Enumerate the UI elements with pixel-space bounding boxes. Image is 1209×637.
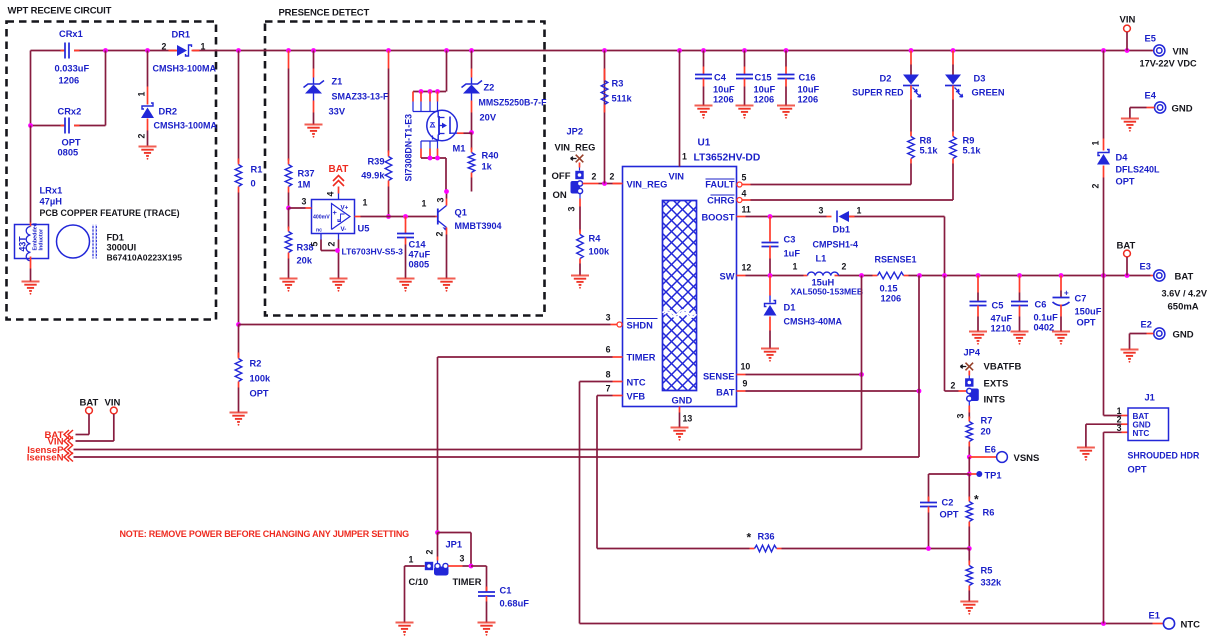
net label IsenseN — [27, 452, 73, 463]
svg-text:6: 6 — [606, 345, 611, 355]
svg-text:3: 3 — [567, 207, 577, 212]
svg-text:C16: C16 — [799, 73, 816, 83]
svg-text:17V-22V VDC: 17V-22V VDC — [1140, 59, 1198, 69]
svg-text:D3: D3 — [974, 74, 986, 84]
svg-text:R6: R6 — [983, 508, 995, 518]
ground below D1 — [761, 349, 779, 358]
jumper JP4 — [951, 348, 1022, 419]
svg-text:47uF: 47uF — [991, 314, 1013, 324]
test point BAT right — [1117, 241, 1136, 276]
svg-text:IsenseN: IsenseN — [27, 452, 64, 463]
svg-text:MMBT3904: MMBT3904 — [455, 221, 502, 231]
diode Db1 CMPSH1-4 — [813, 206, 862, 250]
svg-text:RSENSE1: RSENSE1 — [875, 255, 917, 265]
capacitor C1 — [471, 566, 529, 623]
net label IsenseP — [27, 445, 73, 456]
svg-text:1206: 1206 — [754, 95, 775, 105]
ferrite disc FD1 — [57, 225, 183, 263]
svg-text:C1: C1 — [500, 586, 512, 596]
svg-text:JP4: JP4 — [964, 348, 981, 358]
svg-text:SHDN: SHDN — [627, 321, 654, 331]
svg-text:VIN_REG: VIN_REG — [627, 180, 668, 190]
svg-text:11: 11 — [742, 205, 751, 215]
svg-text:Inductor: Inductor — [39, 228, 45, 250]
svg-text:R4: R4 — [589, 234, 602, 244]
svg-text:100k: 100k — [589, 247, 611, 257]
ground below JP1 pin1 — [396, 623, 414, 632]
svg-text:DR1: DR1 — [172, 30, 191, 40]
wire IsenseP horizontal — [74, 449, 862, 451]
svg-text:OPT: OPT — [250, 389, 269, 399]
zener Z2 — [462, 51, 548, 133]
svg-text:1206: 1206 — [59, 76, 80, 86]
svg-text:D1: D1 — [784, 303, 796, 313]
capacitor C5 — [970, 276, 1013, 334]
svg-text:R3: R3 — [612, 79, 624, 89]
svg-text:C2: C2 — [942, 498, 954, 508]
svg-text:8: 8 — [606, 370, 611, 380]
ground below R38 — [280, 279, 298, 288]
wire IsenseP vertical — [861, 276, 863, 450]
svg-text:4: 4 — [326, 192, 336, 197]
diode D1 CMSH3-40MA — [764, 276, 843, 349]
wire VFB net — [597, 396, 969, 551]
capacitor C4 — [695, 51, 735, 106]
svg-text:Z1: Z1 — [332, 77, 343, 87]
ground below C15 — [736, 106, 754, 115]
wire SENSE net — [746, 372, 864, 377]
svg-text:CMSH3-100MA: CMSH3-100MA — [154, 121, 218, 131]
ground below E2 — [1121, 350, 1139, 359]
svg-text:WPT RECEIVE CIRCUIT: WPT RECEIVE CIRCUIT — [8, 6, 112, 17]
svg-text:3: 3 — [819, 206, 824, 216]
svg-text:OPT: OPT — [940, 510, 959, 520]
transistor Q1 MMBT3904 — [422, 189, 502, 278]
svg-text:2: 2 — [1091, 184, 1101, 189]
ground below C1 — [478, 623, 496, 632]
svg-text:D4: D4 — [1116, 153, 1129, 163]
svg-text:Db1: Db1 — [833, 225, 851, 235]
svg-text:JP1: JP1 — [446, 540, 463, 550]
svg-text:2: 2 — [951, 381, 956, 391]
svg-text:0.1uF: 0.1uF — [1034, 313, 1059, 323]
svg-text:C7: C7 — [1075, 294, 1087, 304]
svg-text:BOOST: BOOST — [701, 213, 734, 223]
svg-text:CMSH3-40MA: CMSH3-40MA — [784, 317, 843, 327]
svg-text:R9: R9 — [963, 136, 975, 146]
svg-text:LT6703HV-S5-3: LT6703HV-S5-3 — [342, 247, 404, 257]
svg-text:OPT: OPT — [1077, 318, 1096, 328]
ground below C6 — [1011, 332, 1029, 341]
svg-text:B67410A0223X195: B67410A0223X195 — [107, 253, 183, 263]
capacitor C7 polarized — [1053, 276, 1102, 332]
svg-text:2: 2 — [162, 42, 167, 52]
svg-text:10uF: 10uF — [798, 85, 820, 95]
svg-text:SI7308DN-T1-E3: SI7308DN-T1-E3 — [404, 114, 414, 182]
turret E5 VIN — [1140, 34, 1198, 69]
svg-text:OPT: OPT — [1128, 465, 1147, 475]
resistor R3 — [601, 69, 632, 113]
turret E3 BAT — [1140, 262, 1208, 313]
jumper JP2 — [552, 127, 621, 212]
svg-text:20k: 20k — [297, 256, 313, 266]
svg-text:FD1: FD1 — [107, 233, 124, 243]
svg-text:1: 1 — [137, 92, 147, 97]
svg-text:R1: R1 — [251, 165, 263, 175]
svg-text:2: 2 — [842, 262, 847, 272]
svg-text:CRx1: CRx1 — [59, 29, 83, 39]
svg-text:C14: C14 — [409, 240, 427, 250]
svg-text:DFLS240L: DFLS240L — [1116, 165, 1161, 175]
svg-text:TIMER: TIMER — [453, 577, 482, 587]
svg-text:43T: 43T — [18, 236, 28, 252]
svg-text:GND: GND — [1173, 330, 1194, 341]
svg-text:47µH: 47µH — [40, 197, 63, 207]
resistor RSENSE1 — [873, 255, 917, 304]
capacitor C14 — [397, 214, 431, 278]
svg-text:1uF: 1uF — [784, 249, 801, 259]
svg-text:3: 3 — [1117, 423, 1122, 433]
svg-text:PRESENCE DETECT: PRESENCE DETECT — [279, 8, 370, 19]
svg-text:M1: M1 — [453, 144, 466, 154]
wire SW-BAT line — [746, 273, 1151, 278]
svg-text:13: 13 — [683, 414, 693, 424]
capacitor CRx1 — [55, 29, 90, 86]
svg-text:FAULT: FAULT — [705, 180, 735, 190]
test point VIN bottom — [76, 398, 121, 442]
svg-text:C5: C5 — [992, 301, 1004, 311]
wire TIMER net — [435, 357, 612, 566]
svg-text:2: 2 — [137, 134, 147, 139]
svg-text:3: 3 — [436, 198, 446, 203]
svg-text:CRx2: CRx2 — [58, 107, 82, 117]
svg-text:10: 10 — [741, 362, 751, 372]
svg-text:R7: R7 — [981, 416, 993, 426]
wire NTC net — [580, 382, 1153, 626]
svg-text:1: 1 — [201, 42, 206, 52]
wire BAT pin9 net — [746, 389, 922, 394]
svg-text:C3: C3 — [784, 235, 796, 245]
svg-text:1206: 1206 — [798, 95, 819, 105]
IC U1 LT3652HV-DD — [623, 138, 761, 407]
svg-text:E4: E4 — [1145, 91, 1157, 101]
svg-text:1: 1 — [793, 262, 798, 272]
resistor R5 — [966, 546, 1002, 601]
wire FAULT net — [751, 184, 912, 186]
resistor R6 — [966, 474, 994, 549]
ground below U1 — [671, 428, 689, 437]
svg-text:U5: U5 — [358, 224, 370, 234]
svg-text:1206: 1206 — [713, 95, 734, 105]
svg-text:+: + — [333, 208, 338, 217]
svg-text:V+: V+ — [341, 205, 349, 212]
svg-text:GREEN: GREEN — [972, 88, 1005, 98]
svg-text:JP2: JP2 — [567, 127, 584, 137]
svg-text:R2: R2 — [250, 359, 262, 369]
U1 pin stubs — [606, 173, 752, 396]
jumper JP1 — [405, 533, 482, 623]
svg-text:R39: R39 — [367, 157, 384, 167]
connector J1 — [1086, 276, 1200, 624]
svg-text:LRx1: LRx1 — [40, 186, 63, 196]
capacitor C2 — [920, 474, 969, 549]
ground below C5 — [969, 332, 987, 341]
svg-text:150uF: 150uF — [1075, 307, 1102, 317]
U1 pin 1 VIN wire — [680, 51, 688, 167]
svg-text:TP1: TP1 — [985, 471, 1002, 481]
test point BAT bottom — [76, 398, 99, 435]
svg-text:1: 1 — [857, 206, 862, 216]
svg-text:VIN_REG: VIN_REG — [555, 143, 596, 153]
test point E6 VSNS — [967, 445, 1039, 465]
svg-text:+: + — [1064, 289, 1069, 298]
wire CHRG net — [751, 199, 954, 201]
wire R3 to VIN_REG node — [604, 51, 606, 184]
diode DR2 — [137, 51, 218, 146]
svg-text:Z2: Z2 — [484, 83, 495, 93]
svg-text:R36: R36 — [758, 532, 775, 542]
svg-text:CMPSH1-4: CMPSH1-4 — [813, 240, 859, 250]
capacitor C3 — [762, 217, 801, 276]
svg-text:R5: R5 — [981, 566, 993, 576]
capacitor CRx2 — [28, 51, 105, 158]
wire BOOST net — [746, 214, 945, 275]
svg-text:LT3652HV-DD: LT3652HV-DD — [694, 153, 761, 164]
svg-text:20V: 20V — [480, 113, 497, 123]
net label VIN — [48, 436, 74, 447]
svg-text:GND: GND — [1172, 104, 1193, 115]
resistor R4 — [577, 207, 610, 276]
svg-text:V-: V- — [341, 226, 347, 233]
svg-text:0: 0 — [251, 179, 256, 189]
turret E4 GND — [1130, 91, 1193, 119]
ground below C4 — [695, 106, 713, 115]
svg-text:3: 3 — [460, 554, 465, 564]
svg-text:NTC: NTC — [1133, 429, 1150, 438]
svg-text:2: 2 — [435, 232, 445, 237]
svg-text:D2: D2 — [880, 74, 892, 84]
svg-text:2: 2 — [592, 172, 597, 182]
svg-text:ON: ON — [553, 190, 567, 201]
svg-text:VIN: VIN — [1173, 47, 1189, 58]
svg-text:1206: 1206 — [881, 294, 902, 304]
resistor R1 — [235, 51, 262, 325]
svg-text:EXTS: EXTS — [984, 379, 1009, 390]
diode D4 DFLS240L — [1091, 51, 1161, 276]
ground below E4 — [1121, 119, 1139, 128]
svg-text:NTC: NTC — [1181, 620, 1201, 631]
turret E1 NTC — [1149, 611, 1201, 631]
svg-text:650mA: 650mA — [1168, 302, 1199, 313]
svg-text:7: 7 — [606, 384, 611, 394]
svg-text:9: 9 — [743, 379, 748, 389]
diode DR1 — [153, 30, 217, 74]
svg-text:5: 5 — [742, 173, 747, 183]
svg-text:SUPER RED: SUPER RED — [852, 88, 903, 98]
svg-text:SENSE: SENSE — [703, 372, 735, 382]
svg-text:1k: 1k — [482, 162, 493, 172]
svg-text:47uF: 47uF — [409, 250, 431, 260]
svg-text:2: 2 — [327, 242, 337, 247]
svg-text:SHROUDED HDR: SHROUDED HDR — [1128, 451, 1200, 461]
svg-text:R40: R40 — [482, 151, 499, 161]
svg-text:R8: R8 — [920, 136, 932, 146]
zener Z1 — [304, 51, 390, 125]
svg-text:49.9k: 49.9k — [361, 171, 385, 181]
svg-text:VIN: VIN — [1120, 15, 1136, 26]
svg-text:E2: E2 — [1141, 320, 1152, 330]
wire IsenseN horizontal — [74, 456, 920, 458]
svg-text:INTS: INTS — [984, 395, 1006, 406]
svg-text:PCB COPPER FEATURE (TRACE): PCB COPPER FEATURE (TRACE) — [40, 208, 180, 218]
svg-text:0.68uF: 0.68uF — [500, 599, 530, 609]
capacitor C16 — [778, 51, 820, 106]
svg-text:0.033uF: 0.033uF — [55, 64, 90, 74]
svg-text:L1: L1 — [816, 254, 827, 264]
svg-text:NOTE: REMOVE POWER BEFORE CHAN: NOTE: REMOVE POWER BEFORE CHANGING ANY J… — [120, 529, 410, 539]
svg-text:BAT: BAT — [329, 164, 349, 175]
ground below DR2 — [139, 147, 157, 156]
ground below C16 — [777, 106, 795, 115]
comparator U5 LT6703 — [289, 164, 436, 279]
svg-text:SW: SW — [720, 272, 735, 282]
svg-text:12: 12 — [742, 263, 752, 273]
svg-text:OPT: OPT — [62, 138, 81, 148]
resistor R38 — [285, 206, 313, 279]
svg-text:R37: R37 — [298, 169, 315, 179]
svg-text:3: 3 — [606, 313, 611, 323]
svg-text:4: 4 — [742, 189, 747, 199]
net label BAT — [44, 430, 73, 441]
svg-text:VFB: VFB — [627, 392, 646, 402]
svg-text:33V: 33V — [329, 107, 346, 117]
svg-text:1: 1 — [363, 198, 368, 208]
svg-text:C15: C15 — [755, 73, 772, 83]
ground below R4 — [571, 276, 589, 285]
svg-text:332k: 332k — [981, 578, 1003, 588]
resistor R7 — [966, 413, 992, 458]
svg-text:0.15: 0.15 — [880, 284, 898, 294]
svg-text:VBATFB: VBATFB — [984, 362, 1022, 373]
test point TP1 — [967, 457, 1002, 481]
svg-text:BAT: BAT — [1175, 272, 1194, 283]
svg-text:OFF: OFF — [552, 171, 571, 182]
svg-text:VIN: VIN — [669, 172, 685, 182]
svg-text:10uF: 10uF — [754, 85, 776, 95]
svg-text:1210: 1210 — [991, 324, 1012, 334]
svg-text:TIMER: TIMER — [627, 353, 656, 363]
wire SHDN net — [239, 324, 611, 326]
svg-text:3: 3 — [956, 414, 966, 419]
svg-text:CHRG: CHRG — [707, 196, 734, 206]
ground below C14 — [397, 279, 415, 288]
inductor L1 — [791, 254, 864, 297]
ground below C7 — [1052, 332, 1070, 341]
ground below Z1 — [305, 125, 323, 134]
svg-text:1: 1 — [422, 199, 427, 209]
svg-text:1: 1 — [682, 152, 687, 162]
mosfet M1 SI7308DN — [404, 51, 472, 192]
svg-text:0805: 0805 — [409, 260, 430, 270]
capacitor C15 — [736, 51, 776, 106]
svg-text:0402: 0402 — [1034, 323, 1055, 333]
resistor R2 — [235, 322, 271, 412]
svg-text:DR2: DR2 — [159, 107, 178, 117]
resistor R8 — [908, 132, 939, 185]
svg-text:CMSH3-100MA: CMSH3-100MA — [153, 64, 217, 74]
svg-text:1: 1 — [409, 555, 414, 565]
LED D2 SUPER RED — [852, 51, 920, 132]
resistor R37 — [285, 51, 314, 209]
svg-text:5.1k: 5.1k — [963, 146, 982, 156]
svg-text:VSNS: VSNS — [1014, 453, 1040, 464]
turret E2 GND — [1130, 320, 1194, 350]
svg-text:20: 20 — [981, 427, 991, 437]
svg-text:E1: E1 — [1149, 611, 1160, 621]
svg-text:1M: 1M — [298, 180, 311, 190]
ground below J1 pin2 — [1077, 448, 1095, 457]
svg-text:U1: U1 — [698, 138, 711, 149]
svg-text:C/10: C/10 — [409, 577, 429, 587]
svg-text:5.1k: 5.1k — [920, 146, 939, 156]
svg-text:3: 3 — [302, 197, 307, 207]
wire VIN top rail — [31, 51, 1153, 126]
resistor R40 — [468, 130, 498, 191]
svg-text:J1: J1 — [1145, 393, 1155, 403]
svg-text:400mV: 400mV — [313, 215, 330, 221]
svg-text:NTC: NTC — [627, 378, 646, 388]
LED D3 GREEN — [945, 51, 1005, 132]
svg-text:C6: C6 — [1035, 300, 1047, 310]
U1 pin 13 GND wire — [680, 407, 693, 428]
ground below Q1 — [438, 279, 456, 288]
presence detect dashed box — [265, 22, 545, 316]
resistor R9 — [950, 132, 982, 201]
capacitor C6 — [1011, 276, 1058, 333]
test point VIN top — [1120, 15, 1136, 51]
svg-text:*: * — [974, 493, 979, 507]
svg-text:*: * — [747, 531, 752, 545]
wire JP4 EXTS net — [945, 276, 967, 392]
svg-text:10uF: 10uF — [713, 85, 735, 95]
junction dots VIN rail — [103, 48, 1129, 53]
resistor R36 — [747, 531, 782, 552]
svg-text:SMAZ33-13-F: SMAZ33-13-F — [332, 92, 390, 102]
svg-text:2: 2 — [425, 550, 435, 555]
svg-text:511k: 511k — [612, 94, 633, 104]
inductor LRx1 embedded — [15, 126, 180, 282]
svg-text:100k: 100k — [250, 374, 272, 384]
svg-text:1: 1 — [1091, 141, 1101, 146]
ground below R2 — [230, 413, 248, 422]
svg-text:MMSZ5250B-7-F: MMSZ5250B-7-F — [479, 98, 548, 108]
svg-text:C4: C4 — [714, 73, 727, 83]
svg-text:nc: nc — [316, 228, 322, 234]
resistor R39 — [361, 51, 392, 219]
svg-text:2: 2 — [610, 172, 615, 182]
svg-text:0805: 0805 — [58, 148, 79, 158]
svg-text:3000UI: 3000UI — [107, 243, 137, 253]
ground below R5 — [960, 602, 978, 611]
svg-text:BAT: BAT — [716, 388, 735, 398]
WPT receive circuit dashed box — [7, 22, 217, 320]
svg-text:5: 5 — [310, 242, 320, 247]
ground below U5 — [330, 279, 348, 288]
svg-text:GND: GND — [672, 396, 693, 406]
wire IsenseN vertical — [918, 276, 920, 458]
svg-text:E5: E5 — [1145, 34, 1156, 44]
svg-text:3.6V / 4.2V: 3.6V / 4.2V — [1162, 289, 1208, 299]
